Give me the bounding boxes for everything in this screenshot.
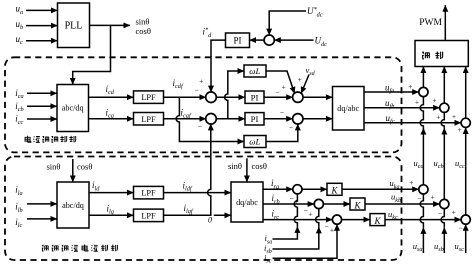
wire icd [89, 96, 134, 98]
svg-text:dq/abc: dq/abc [337, 104, 359, 113]
block LPF 2 [134, 113, 164, 126]
wire PI2-c4r [264, 118, 293, 120]
wire PI1-c2r [264, 96, 293, 98]
label yuce xiebo dianliu kongzhi [42, 244, 118, 251]
wire Udcref-sum [269, 11, 306, 35]
svg-text:+: + [430, 193, 434, 202]
svg-text:K: K [353, 200, 361, 210]
block K a [327, 183, 342, 195]
wire uca up with hops [420, 97, 423, 185]
svg-text:+: + [452, 112, 456, 121]
wire sincos-dqabc2 [246, 158, 248, 182]
svg-text:+: + [308, 210, 312, 219]
summing junction Cc [461, 118, 470, 127]
wire Udc-sum [274, 39, 313, 41]
svg-text:+: + [330, 225, 334, 234]
wire Sa-Ka [302, 188, 327, 190]
wire icqf-c2 [164, 118, 207, 120]
wire ua-PLL [26, 9, 58, 11]
svg-text:+: + [199, 77, 203, 86]
svg-text:PWM: PWM [419, 18, 442, 28]
wire vsd-c2r diagonal [301, 75, 309, 94]
block PI 2 [245, 113, 264, 125]
svg-text:LPF: LPF [141, 211, 156, 220]
svg-text:−: − [289, 194, 293, 203]
summing junction c2r d-out [293, 92, 303, 102]
wire Cb-mod [443, 67, 445, 104]
block dq/abc 2 [231, 182, 263, 222]
svg-text:ωL: ωL [249, 66, 260, 76]
summing junction c1 d-error [206, 92, 217, 103]
wire ilb [27, 203, 57, 205]
summing junction dc [264, 35, 274, 45]
wire isb with hop [273, 209, 319, 249]
wire ub-PLL [26, 25, 58, 27]
svg-text:K: K [373, 216, 381, 226]
summing junction Sc [332, 215, 341, 224]
wire Sc-Kc [342, 219, 370, 221]
wire wL2-c4r [266, 124, 298, 142]
block PI 1 [245, 91, 264, 103]
wire ica [27, 92, 57, 94]
svg-text:+: + [408, 82, 412, 91]
wire wL1-c2r diagonal [266, 71, 295, 94]
block dq/abc 1 [333, 87, 365, 131]
summing junction Ca [419, 87, 428, 96]
svg-text:−: − [304, 206, 308, 215]
wire c2r-dqabc1 [303, 96, 333, 98]
svg-text:+: + [436, 112, 440, 121]
wire ucc up [465, 127, 467, 215]
node sincos out [136, 17, 151, 36]
wire ilqf-c2 up with hop [164, 124, 211, 216]
dashed box current decoupling control [5, 57, 402, 152]
wire ilq [89, 214, 134, 216]
svg-text:LPF: LPF [141, 93, 156, 102]
block PLL [58, 3, 90, 48]
summing junction c2 q-error [206, 114, 217, 125]
svg-text:+: + [452, 208, 456, 217]
wire Sb-Kb [323, 203, 350, 205]
block PI dc [226, 33, 250, 48]
summing junction Cb [440, 103, 449, 112]
wire sum-PIdc [250, 39, 265, 41]
wire c2-PI2 [216, 118, 245, 120]
wire PIdc-c1 [211, 40, 226, 92]
wire Kc-Dc [385, 219, 461, 221]
block LPF 3 [134, 186, 164, 199]
svg-text:PLL: PLL [65, 21, 83, 32]
svg-text:+: + [457, 125, 461, 134]
wire ild [89, 192, 134, 194]
wire usb up with hop [441, 209, 444, 253]
svg-text:−: − [280, 108, 284, 117]
wire Ka-Da [342, 188, 419, 190]
wire ildf-dqabc2 [164, 192, 232, 194]
block K b [350, 198, 365, 210]
wire zero-dqabc2 [214, 214, 231, 216]
svg-text:−: − [195, 86, 199, 95]
svg-text:LPF: LPF [141, 189, 156, 198]
svg-text:PI: PI [251, 92, 259, 102]
svg-text:+: + [432, 96, 436, 105]
block abc/dq 2 [57, 182, 89, 228]
wire icb [27, 105, 57, 107]
wire PLL-abcdq1 [73, 25, 111, 84]
svg-text:+: + [415, 98, 419, 107]
svg-text:−: − [289, 123, 293, 132]
block modulation [415, 41, 468, 67]
wire Cc-mod [465, 67, 467, 119]
wire mod-PWM [444, 5, 446, 40]
svg-text:K: K [330, 186, 338, 196]
svg-text:−: − [458, 224, 462, 233]
wire c1-PI1 [216, 96, 245, 98]
wire Ca-mod [422, 67, 424, 88]
svg-text:LPF: LPF [141, 115, 156, 124]
svg-text:−: − [275, 88, 279, 97]
svg-text:sinθ: sinθ [47, 161, 61, 171]
wire ufa [364, 91, 419, 93]
wire ilc [27, 218, 57, 220]
wire icc [27, 118, 57, 120]
wire usa up with hops [420, 194, 423, 253]
svg-text:cosθ: cosθ [136, 26, 151, 36]
svg-text:+: + [409, 178, 413, 187]
wire qerr tap to wL1 [225, 71, 244, 119]
wire irc-Sc [263, 219, 332, 221]
wire icdf tap to wL2 [176, 97, 244, 141]
svg-text:ωL: ωL [249, 137, 260, 147]
svg-text:PI: PI [251, 114, 259, 124]
block K c [370, 214, 385, 226]
svg-text:+: + [282, 83, 286, 92]
svg-text:+: + [298, 75, 302, 84]
wire usc up [465, 224, 467, 253]
wire ufc [364, 122, 461, 124]
wire uc-PLL [26, 40, 58, 42]
block wL top [244, 65, 266, 77]
dashed box predictive harmonic current control [5, 157, 402, 261]
wire ufb [364, 107, 440, 109]
svg-text:abc/dq: abc/dq [62, 104, 84, 113]
wire ucb up with hop [441, 112, 444, 199]
wire irb-Sb [263, 203, 314, 205]
svg-text:PI: PI [233, 35, 241, 45]
block abc/dq 1 [57, 85, 89, 132]
label dianliu jieou kongzhi [25, 136, 76, 143]
svg-text:abc/dq: abc/dq [62, 201, 84, 210]
summing junction Dc [461, 215, 470, 224]
summing junction Db [440, 199, 449, 208]
svg-text:0: 0 [208, 215, 212, 224]
svg-text:sinθ: sinθ [228, 161, 242, 171]
svg-text:−: − [198, 122, 202, 131]
summing junction Sb [314, 199, 323, 208]
wire isa with hops [273, 194, 298, 239]
wire sincos-abcdq2 [72, 159, 74, 182]
wire icq [89, 118, 134, 120]
svg-text:−: − [324, 222, 328, 231]
svg-text:cosθ: cosθ [252, 161, 267, 171]
svg-text:dq/abc: dq/abc [236, 198, 258, 207]
wire isc [273, 224, 338, 258]
summing junction Sa [293, 185, 302, 194]
block LPF 1 [134, 91, 164, 104]
wire PLL-sincos [90, 24, 131, 26]
block wL bottom [244, 136, 266, 148]
summing junction Da [419, 185, 428, 194]
wire c4r-dqabc1 [303, 118, 333, 120]
wire icdf-c1 [164, 96, 207, 98]
wire ira-Sa [263, 188, 293, 190]
wire Kb-Db [365, 203, 440, 205]
summing junction c4r q-out [293, 114, 303, 124]
block LPF 4 [134, 209, 164, 222]
svg-text:cosθ: cosθ [77, 161, 92, 171]
